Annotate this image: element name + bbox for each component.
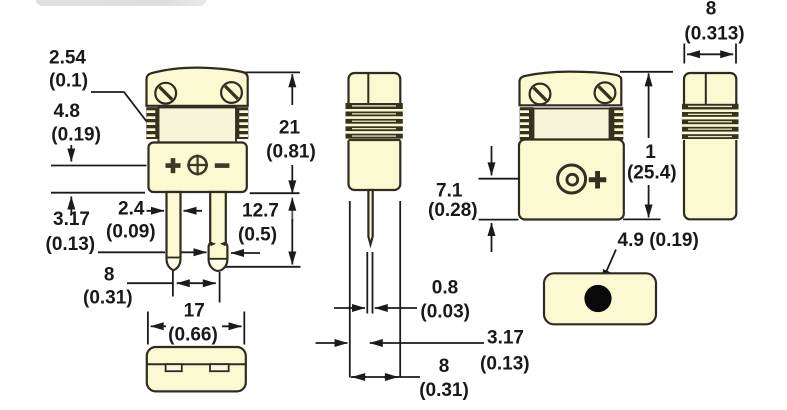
svg-text:(0.66): (0.66)	[168, 325, 218, 346]
svg-text:(0.13): (0.13)	[46, 234, 96, 255]
svg-text:(0.1): (0.1)	[49, 71, 88, 92]
svg-text:4.9 (0.19): 4.9 (0.19)	[618, 230, 699, 251]
svg-text:3.17: 3.17	[487, 328, 524, 349]
svg-text:(0.31): (0.31)	[419, 380, 469, 401]
svg-text:3.17: 3.17	[53, 209, 90, 230]
svg-text:4.8: 4.8	[54, 101, 80, 122]
svg-text:17: 17	[184, 301, 205, 322]
svg-text:1: 1	[645, 142, 656, 163]
svg-text:(0.03): (0.03)	[420, 302, 470, 323]
svg-text:2.4: 2.4	[118, 199, 145, 220]
svg-text:(0.81): (0.81)	[266, 142, 316, 163]
svg-text:2.54: 2.54	[49, 48, 86, 69]
svg-text:(0.13): (0.13)	[480, 354, 530, 375]
svg-text:21: 21	[279, 118, 301, 139]
svg-text:(25.4): (25.4)	[627, 163, 677, 184]
svg-text:0.8: 0.8	[432, 278, 458, 299]
svg-text:8: 8	[439, 356, 450, 377]
svg-text:(0.313): (0.313)	[684, 24, 744, 45]
svg-text:(0.31): (0.31)	[83, 288, 133, 309]
svg-text:7.1: 7.1	[436, 181, 463, 202]
svg-text:12.7: 12.7	[242, 201, 279, 222]
svg-text:8: 8	[706, 0, 717, 20]
svg-text:(0.28): (0.28)	[428, 200, 478, 221]
svg-text:(0.5): (0.5)	[238, 225, 277, 246]
svg-text:8: 8	[104, 265, 115, 286]
svg-text:(0.19): (0.19)	[51, 125, 101, 146]
svg-text:(0.09): (0.09)	[106, 222, 156, 243]
